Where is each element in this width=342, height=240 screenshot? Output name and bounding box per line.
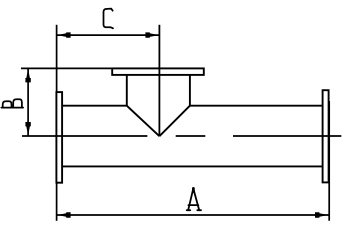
A left extension line [56, 183, 58, 221]
C left arrow [57, 32, 70, 37]
top flange [112, 68, 204, 75]
label B (rotated 90deg CCW) [1, 99, 23, 107]
branch left wall [126, 75, 128, 106]
B top arrow [25, 69, 30, 82]
pipe top line left segment [62, 105, 127, 107]
A right arrow [315, 212, 328, 217]
pipe horizontal centerline dash 3 [233, 135, 341, 137]
left flange [56, 92, 62, 183]
label A [187, 188, 201, 210]
A left arrow [57, 212, 70, 217]
branch cone right diagonal [159, 106, 190, 137]
dimension B [21, 68, 112, 136]
pipe horizontal centerline dash 1 [22, 135, 147, 137]
label C [104, 9, 114, 29]
B top extension line [21, 67, 112, 69]
C left extension line [56, 25, 58, 92]
dimension A [57, 101, 330, 221]
dimension C [57, 25, 160, 92]
A right extension line [328, 101, 330, 221]
C dimension line [57, 34, 160, 36]
branch vertical centerline (also C right extension) [158, 25, 160, 136]
A dimension line [57, 214, 329, 216]
pipe top line right segment [190, 105, 323, 107]
pipe bottom line [62, 165, 323, 167]
B bottom arrow [25, 122, 30, 135]
right flange [323, 90, 329, 182]
branch right wall [189, 75, 191, 106]
pipe horizontal centerline dash 2 [176, 135, 206, 137]
B dimension line [27, 68, 29, 136]
C right arrow [145, 32, 158, 37]
branch cone left diagonal [127, 106, 160, 137]
